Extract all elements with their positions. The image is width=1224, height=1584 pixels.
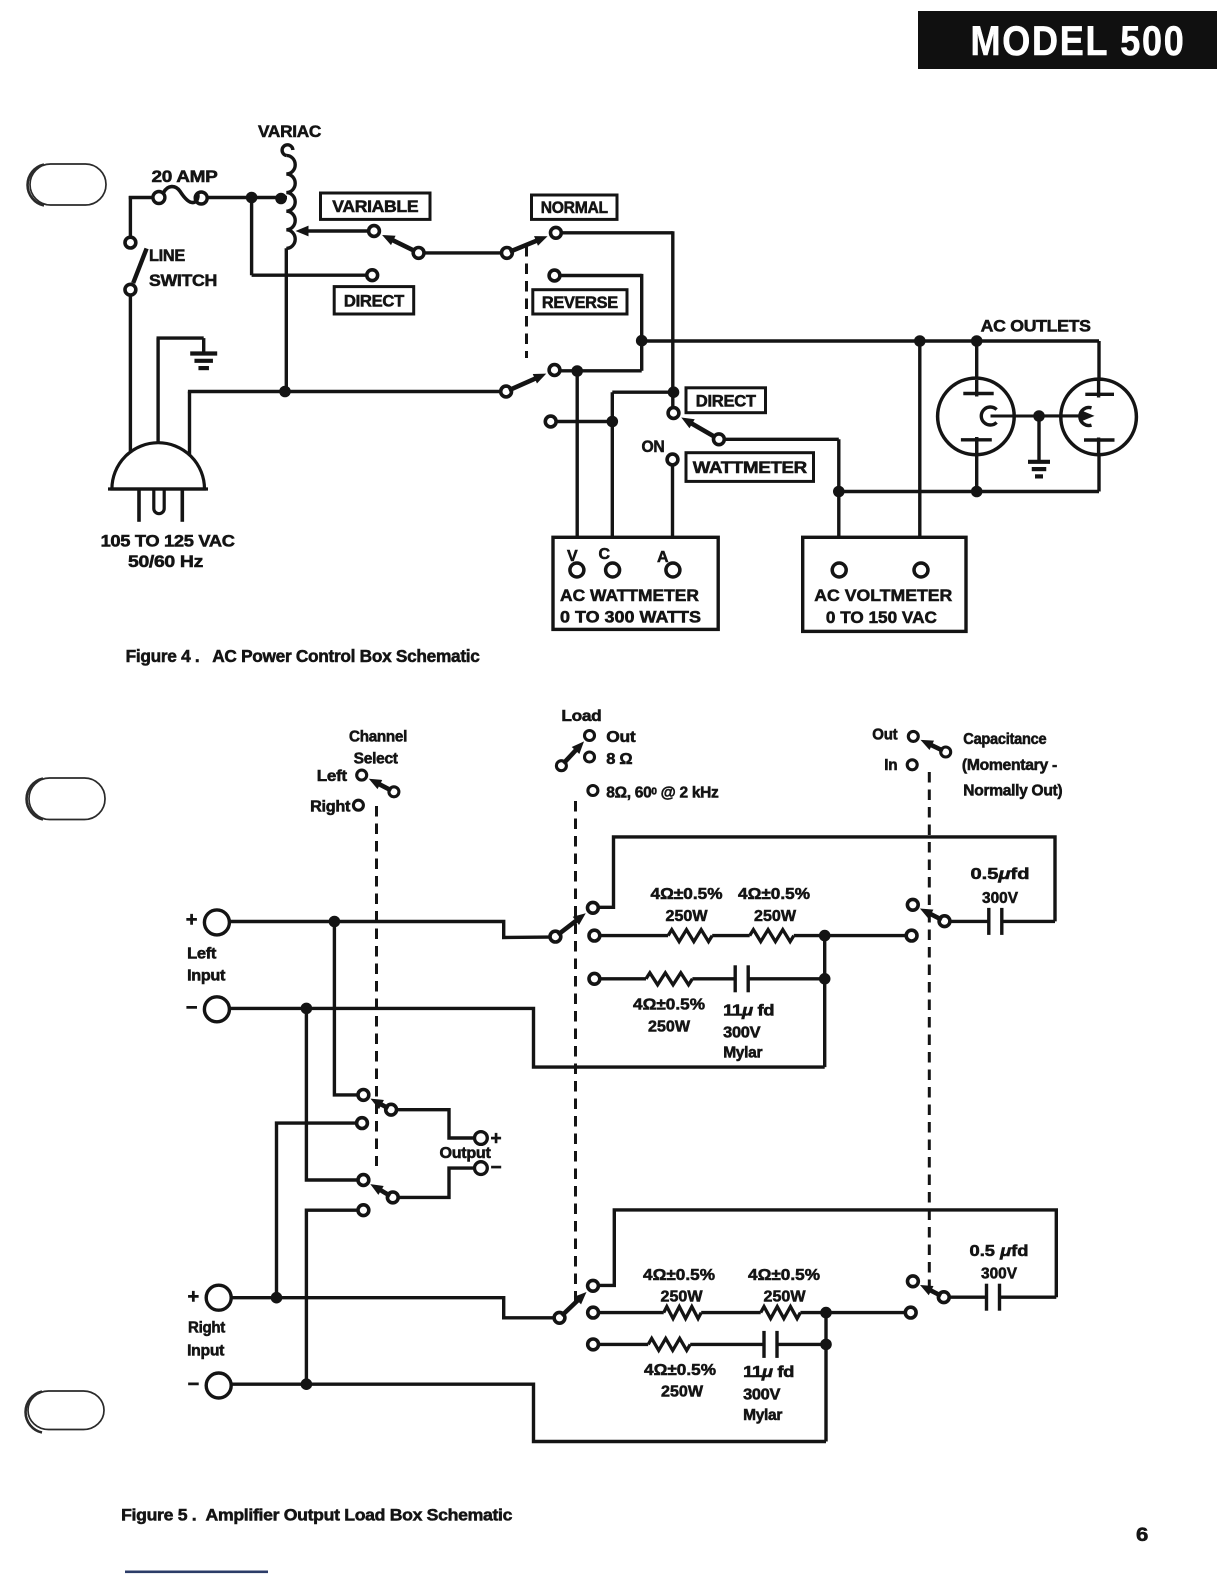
AC outlet J2 xyxy=(1039,379,1136,455)
wire neutral column xyxy=(188,392,285,456)
label R1R xyxy=(643,1267,715,1306)
label AC OUTLETS xyxy=(981,317,1091,336)
svg-text:0.5μfd: 0.5μfd xyxy=(971,866,1030,883)
label Load xyxy=(561,708,601,725)
label In (cap) xyxy=(884,757,897,774)
label box DIRECT xyxy=(334,287,414,314)
wire S5a to output plus xyxy=(396,1110,474,1138)
junction dot C column xyxy=(607,416,619,428)
contact wattmeter ON xyxy=(667,454,678,465)
svg-text:A: A xyxy=(657,549,669,566)
contact REVERSE xyxy=(549,270,560,281)
label C2L xyxy=(723,1003,774,1062)
contact cap-out xyxy=(908,731,918,741)
junction dot direct-tap xyxy=(246,192,258,204)
label Left Input xyxy=(187,946,225,985)
switch S3R blade xyxy=(562,1292,587,1316)
variac wiper arrow xyxy=(296,226,370,237)
svg-text:AC OUTLETS: AC OUTLETS xyxy=(981,317,1091,336)
label Left xyxy=(317,768,347,785)
caption figure 5 xyxy=(121,1506,512,1525)
junction dot left plus xyxy=(329,916,341,928)
svg-text:300V: 300V xyxy=(723,1025,761,1042)
svg-text:300V: 300V xyxy=(743,1387,781,1404)
switch S4L blade xyxy=(920,908,942,919)
contact S5a right xyxy=(357,1118,368,1129)
wire cap to loop R xyxy=(1000,1295,1057,1298)
wire S3L out to loop xyxy=(599,837,1055,922)
svg-text:50/60 Hz: 50/60 Hz xyxy=(128,552,203,571)
contact cap-out R stub xyxy=(908,1276,919,1287)
wire rc segment c xyxy=(748,977,825,980)
wire voltmeter V column xyxy=(576,371,579,563)
junction dot net-N1 xyxy=(571,365,583,377)
label minus output xyxy=(491,1158,502,1179)
switch S4R pivot xyxy=(938,1292,949,1303)
wire right minus rail xyxy=(231,1384,826,1441)
svg-text:VARIABLE: VARIABLE xyxy=(332,198,418,216)
svg-text:250W: 250W xyxy=(764,1289,806,1306)
svg-text:Left: Left xyxy=(187,946,216,963)
svg-text:−: − xyxy=(188,1374,199,1396)
svg-text:Left: Left xyxy=(317,768,347,785)
wire S1a to S1b xyxy=(424,251,503,254)
svg-text:Capacitance: Capacitance xyxy=(963,731,1047,748)
junction dot rail L xyxy=(819,930,831,942)
svg-text:Load: Load xyxy=(561,708,601,725)
junction dot right minus xyxy=(301,1378,313,1390)
label box REVERSE xyxy=(533,290,627,314)
label R1L xyxy=(651,886,723,925)
switch S3L blade xyxy=(558,913,586,934)
svg-text:NORMAL: NORMAL xyxy=(541,199,608,217)
svg-text:4Ω±0.5%: 4Ω±0.5% xyxy=(738,886,810,903)
svg-text:11μ fd: 11μ fd xyxy=(723,1003,774,1020)
contact NORMAL xyxy=(551,227,562,238)
AC voltmeter M2 box xyxy=(803,537,966,631)
contact S3L 8ohm xyxy=(589,930,600,941)
svg-text:−: − xyxy=(491,1158,502,1179)
switch S1a pivot xyxy=(413,248,424,259)
contact DIRECT2 xyxy=(668,408,679,419)
label Right Input xyxy=(187,1320,225,1360)
terminal left input plus xyxy=(204,910,229,935)
wire ground branch xyxy=(157,338,204,446)
svg-text:6: 6 xyxy=(1136,1525,1148,1546)
switch S-load blade xyxy=(563,741,584,763)
wire variac tap rail xyxy=(285,390,501,393)
wire AC outlets top rail xyxy=(642,339,1099,342)
capacitor C2R 11ufd xyxy=(764,1331,777,1358)
wire left plus rail xyxy=(230,922,551,938)
wattmeter terminal A xyxy=(657,549,680,577)
svg-text:AC WATTMETER: AC WATTMETER xyxy=(560,586,699,605)
terminal right input minus xyxy=(206,1373,231,1398)
ground symbol plug xyxy=(190,354,217,369)
svg-text:+: + xyxy=(188,1286,199,1308)
wire REVERSE contact column xyxy=(561,274,642,341)
svg-text:REVERSE: REVERSE xyxy=(542,294,618,312)
junction dot reverse-node xyxy=(636,335,648,347)
wire rail R c xyxy=(800,1311,905,1314)
svg-text:ON: ON xyxy=(642,438,665,456)
switch S5a blade xyxy=(370,1099,388,1109)
wire mid column L xyxy=(823,936,826,1068)
switch S2 pivot xyxy=(714,434,725,445)
wire rail R a xyxy=(599,1311,664,1314)
wire voltmeter right column xyxy=(918,341,921,563)
switch S4R blade xyxy=(920,1285,941,1296)
contact load-8ohm xyxy=(585,752,595,762)
svg-text:0 TO 300 WATTS: 0 TO 300 WATTS xyxy=(560,608,701,627)
switch S1c blade xyxy=(509,374,546,391)
wire outlet2 top leg xyxy=(1097,341,1100,381)
terminal right input plus xyxy=(206,1285,231,1310)
wire rail segment c xyxy=(794,934,906,937)
MODEL 500 banner xyxy=(918,11,1217,69)
wire rc R c xyxy=(777,1343,826,1346)
wire cap to loop L xyxy=(1002,920,1055,923)
ground symbol outlets xyxy=(1028,462,1050,477)
wire outlets ground stub xyxy=(1037,416,1040,460)
wire reverse node down xyxy=(640,341,643,371)
wire top-left corner to fuse xyxy=(129,196,153,240)
wire fuse to variac xyxy=(207,196,287,199)
capacitor C1R 0.5ufd xyxy=(987,1284,1000,1311)
svg-text:DIRECT: DIRECT xyxy=(696,392,756,410)
wire outlets bottom rail xyxy=(839,490,1099,493)
svg-text:AC VOLTMETER: AC VOLTMETER xyxy=(814,586,952,605)
label plus right input xyxy=(188,1286,199,1308)
wire S5b bottom to Rminus xyxy=(306,1210,358,1384)
mech link S1 dashed xyxy=(525,246,528,358)
svg-text:DIRECT: DIRECT xyxy=(344,292,404,310)
label C1R xyxy=(970,1243,1029,1283)
svg-text:4Ω±0.5%: 4Ω±0.5% xyxy=(644,1362,716,1379)
label 105 TO 125 VAC xyxy=(101,532,235,551)
label box WATTMETER xyxy=(686,453,814,482)
contact channel-left xyxy=(357,770,367,780)
svg-text:11μ fd: 11μ fd xyxy=(743,1364,794,1381)
svg-text:Mylar: Mylar xyxy=(743,1407,782,1424)
contact cap-in L xyxy=(906,930,917,941)
caption figure 4 xyxy=(126,646,481,666)
label C2R xyxy=(743,1364,794,1424)
fuse F1 20A xyxy=(153,187,207,204)
svg-text:Input: Input xyxy=(187,1343,224,1360)
svg-text:MODEL 500: MODEL 500 xyxy=(971,17,1186,64)
wire contact to net-N1 xyxy=(561,369,642,372)
junction dot voltmeter-left xyxy=(833,486,845,498)
svg-text:4Ω±0.5%: 4Ω±0.5% xyxy=(643,1267,715,1284)
contact S5a top xyxy=(358,1090,369,1101)
switch S2 blade xyxy=(681,418,716,438)
svg-text:300V: 300V xyxy=(981,1266,1018,1283)
svg-text:0 TO 150 VAC: 0 TO 150 VAC xyxy=(826,608,937,627)
svg-text:Right: Right xyxy=(188,1320,225,1337)
label C1L xyxy=(971,866,1030,907)
contact DIRECT xyxy=(367,270,378,281)
wire stub to C column xyxy=(557,420,613,423)
svg-text:250W: 250W xyxy=(754,908,796,925)
wire S5a right to Rplus xyxy=(277,1123,357,1298)
switch S3L pole xyxy=(550,931,561,942)
plug P1 body xyxy=(108,443,208,489)
svg-text:LINE: LINE xyxy=(149,247,185,265)
wire right plus rail xyxy=(231,1298,554,1318)
svg-text:Figure 4 . AC Power Control: Figure 4 . AC Power Control Box Schemati… xyxy=(126,646,481,666)
svg-text:250W: 250W xyxy=(666,908,708,925)
wire outlet2 bottom leg xyxy=(1097,453,1100,492)
svg-text:Mylar: Mylar xyxy=(723,1045,762,1062)
contact cap-in xyxy=(907,760,917,770)
wattmeter terminal V xyxy=(567,548,584,577)
svg-text:+: + xyxy=(186,909,197,931)
wire rc segment b xyxy=(692,977,735,980)
junction dot right plus xyxy=(271,1292,283,1304)
wire line switch to plug xyxy=(129,296,132,460)
junction dot outlets center xyxy=(1033,410,1045,422)
svg-text:Out: Out xyxy=(606,729,635,746)
contact cap-out L stub xyxy=(907,899,918,910)
variac T1 autotransformer coil xyxy=(282,145,295,249)
label LINE SWITCH xyxy=(149,247,217,290)
svg-text:8 Ω: 8 Ω xyxy=(606,751,632,768)
wire output minus to S5b xyxy=(398,1168,475,1197)
label R2R xyxy=(748,1267,820,1306)
label R3L xyxy=(633,997,705,1036)
switch S-load pivot xyxy=(556,761,566,771)
contact wattmeter stub xyxy=(545,416,556,427)
svg-text:250W: 250W xyxy=(661,1289,703,1306)
label box DIRECT 2 xyxy=(686,388,766,413)
AC wattmeter M1 box xyxy=(553,537,718,629)
label Capacitance xyxy=(962,731,1063,800)
plug prongs xyxy=(139,489,182,522)
resistor R2L 4ohm xyxy=(750,930,794,942)
capacitance dashed link xyxy=(928,772,931,1288)
binder hole top xyxy=(28,164,106,206)
svg-text:−: − xyxy=(186,997,197,1019)
resistor R1L 4ohm xyxy=(668,930,712,942)
wire rail segment a xyxy=(600,934,668,937)
junction dot left minus xyxy=(301,1003,313,1015)
label box NORMAL xyxy=(532,195,618,219)
contact load-out xyxy=(585,731,595,741)
svg-text:+: + xyxy=(491,1129,502,1150)
capacitor C1L 0.5ufd xyxy=(989,908,1002,935)
label minus left input xyxy=(186,997,197,1019)
svg-text:250W: 250W xyxy=(648,1019,690,1036)
wire direct tap down-right xyxy=(252,198,367,276)
junction dot outlet1 bottom xyxy=(971,486,983,498)
label 50/60 Hz xyxy=(128,552,203,571)
svg-text:Right: Right xyxy=(310,799,350,816)
wire outlet1 bottom stub xyxy=(975,437,978,492)
switch S-cap blade xyxy=(921,740,943,751)
line switch SW blade xyxy=(133,249,146,284)
label R2L xyxy=(738,886,810,925)
svg-text:250W: 250W xyxy=(661,1384,703,1401)
wire rc segment a xyxy=(600,977,646,980)
wire plus column xyxy=(334,922,358,1095)
label Out (cap) xyxy=(872,727,897,744)
contact VARIABLE xyxy=(369,226,380,237)
junction dot rc L xyxy=(819,973,831,985)
svg-text:0.5 μfd: 0.5 μfd xyxy=(970,1243,1029,1260)
contact channel-right xyxy=(353,800,363,810)
wire NORMAL contact column xyxy=(562,231,673,407)
label ON xyxy=(642,438,665,456)
wire rail segment b xyxy=(712,934,750,937)
switch S1c pivot xyxy=(501,386,512,397)
voltmeter terminal right xyxy=(914,563,928,577)
voltmeter terminal left xyxy=(832,563,846,577)
contact S5b top xyxy=(358,1175,369,1186)
label box VARIABLE xyxy=(321,193,431,219)
svg-text:WATTMETER: WATTMETER xyxy=(693,459,807,477)
switch S5b pivot xyxy=(387,1192,398,1203)
svg-text:4Ω±0.5%: 4Ω±0.5% xyxy=(633,997,705,1014)
label 20 AMP xyxy=(152,167,218,186)
svg-text:Input: Input xyxy=(187,968,225,985)
AC outlet J1 xyxy=(938,378,1035,455)
svg-text:In: In xyxy=(884,757,897,774)
binder hole bottom xyxy=(26,1391,104,1433)
wire rc R a xyxy=(599,1343,648,1346)
junction dot variac rail xyxy=(279,386,291,398)
svg-text:Normally Out): Normally Out) xyxy=(963,783,1062,800)
wire variac bottom stem xyxy=(285,248,286,391)
junction dot rail R xyxy=(820,1307,832,1319)
contact cap-in R xyxy=(905,1307,916,1318)
svg-text:SWITCH: SWITCH xyxy=(149,272,217,290)
svg-text:Figure 5 . Amplifier Output L: Figure 5 . Amplifier Output Load Box Sch… xyxy=(121,1506,512,1525)
label minus right input xyxy=(188,1374,199,1396)
contact S3L out xyxy=(588,902,599,913)
svg-text:(Momentary -: (Momentary - xyxy=(962,757,1057,774)
label Right xyxy=(310,799,350,816)
contact S3R rc xyxy=(588,1339,599,1350)
wire minus column xyxy=(306,1008,358,1180)
svg-text:20 AMP: 20 AMP xyxy=(152,167,218,186)
wire outlet1 top stub xyxy=(975,341,978,397)
wire ON to A terminal xyxy=(671,466,674,564)
switch S-chan blade xyxy=(369,779,391,791)
capacitor C2L 11ufd xyxy=(735,965,748,992)
wire mid column R xyxy=(824,1313,827,1442)
terminal left input minus xyxy=(204,997,229,1022)
wire pivot to cap L xyxy=(950,920,989,923)
contact load-8ohm-60 xyxy=(588,786,598,796)
svg-text:4Ω±0.5%: 4Ω±0.5% xyxy=(651,886,723,903)
junction dot rc R xyxy=(820,1339,832,1351)
wire rail R b xyxy=(701,1311,761,1314)
contact S3R out xyxy=(588,1280,599,1291)
switch S5a pivot xyxy=(386,1104,397,1115)
wattmeter terminal C xyxy=(599,546,620,577)
resistor R1R 4ohm xyxy=(664,1307,702,1319)
label Channel Select xyxy=(349,729,407,768)
wire rc R b xyxy=(690,1343,764,1346)
label 8 ohm xyxy=(606,751,632,768)
label Output xyxy=(440,1145,491,1162)
channel select dashed link xyxy=(375,806,378,1166)
wire C column xyxy=(612,392,673,563)
terminal output minus xyxy=(475,1162,488,1175)
switch S5b blade xyxy=(370,1184,390,1196)
wire S2 pivot rail xyxy=(724,439,839,563)
line switch contacts xyxy=(125,237,136,295)
svg-text:Output: Output xyxy=(440,1145,491,1162)
label Out (load) xyxy=(606,729,635,746)
resistor R3R 4ohm xyxy=(648,1338,690,1350)
svg-text:4Ω±0.5%: 4Ω±0.5% xyxy=(748,1267,820,1284)
contact S3L rc xyxy=(589,973,600,984)
junction dot outlet1 top xyxy=(971,335,983,347)
label R3R xyxy=(644,1362,716,1401)
label VARIAC xyxy=(258,122,321,141)
label plus output xyxy=(491,1129,502,1150)
page number xyxy=(1136,1525,1148,1546)
svg-text:8Ω, 600 @ 2 kHz: 8Ω, 600 @ 2 kHz xyxy=(606,785,719,802)
switch S4L pivot xyxy=(939,916,950,927)
svg-text:C: C xyxy=(599,546,611,563)
junction dot direct2 node xyxy=(668,386,680,398)
contact S1c normal xyxy=(549,365,560,376)
switch S3R pole xyxy=(554,1312,565,1323)
binder hole middle xyxy=(27,778,105,820)
resistor R3L 4ohm xyxy=(646,973,692,985)
svg-text:105 TO 125 VAC: 105 TO 125 VAC xyxy=(101,532,235,551)
terminal output plus xyxy=(475,1132,488,1145)
wire left minus rail xyxy=(230,1008,825,1067)
svg-text:Select: Select xyxy=(354,751,398,768)
junction dot variac top xyxy=(275,193,287,205)
wire S3R out to loop xyxy=(599,1210,1057,1297)
label 8 ohm 60deg xyxy=(606,785,719,802)
wire pivot to cap R xyxy=(949,1295,987,1298)
label plus left input xyxy=(186,909,197,931)
switch S-chan pivot xyxy=(389,787,399,797)
contact S5b bottom xyxy=(358,1205,369,1216)
svg-text:300V: 300V xyxy=(982,890,1019,907)
svg-text:V: V xyxy=(567,548,578,565)
junction dot outlet rail A xyxy=(914,335,926,347)
svg-text:VARIAC: VARIAC xyxy=(258,122,321,141)
contact S3R 8ohm xyxy=(588,1307,599,1318)
switch S1b blade xyxy=(510,236,548,252)
resistor R2R 4ohm xyxy=(761,1307,801,1319)
load select dashed link xyxy=(574,801,577,1306)
blue pen mark xyxy=(125,1571,268,1574)
switch S1a blade xyxy=(382,235,416,252)
switch S1b pivot xyxy=(502,248,513,259)
svg-text:Channel: Channel xyxy=(349,729,407,746)
svg-text:Out: Out xyxy=(872,727,897,744)
switch S-cap pivot xyxy=(941,747,951,757)
